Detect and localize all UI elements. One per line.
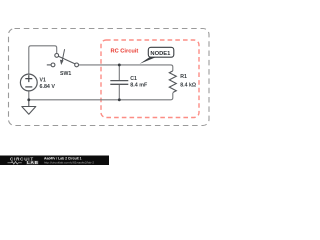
junction node at ground bbox=[27, 98, 30, 101]
voltage source V1 bbox=[20, 74, 37, 91]
wire bottom return bbox=[29, 93, 173, 100]
wire SW1 to top-right corner into resistor bbox=[79, 65, 173, 71]
svg-text:R1: R1 bbox=[180, 74, 187, 80]
footer attribution bar bbox=[0, 156, 109, 166]
wire V1 bottom stub bbox=[28, 91, 30, 100]
outer schematic boundary (gray dashed) bbox=[9, 29, 210, 126]
label RC Circuit bbox=[111, 49, 139, 55]
node NODE1 flag bbox=[140, 47, 174, 64]
footer CircuitLab logo bbox=[8, 157, 39, 166]
svg-text:RC Circuit: RC Circuit bbox=[111, 49, 139, 55]
svg-text:LAB: LAB bbox=[27, 160, 39, 165]
wire top-left from V1 to SW1 bbox=[29, 46, 57, 74]
svg-text:http://circuitlab.com/c/65zqvd: http://circuitlab.com/c/65zqvdw2/lab-2 bbox=[44, 160, 94, 164]
label V1 value bbox=[40, 77, 56, 90]
svg-text:SW1: SW1 bbox=[60, 71, 71, 77]
label R1 value bbox=[180, 74, 196, 89]
capacitor C1 bbox=[110, 81, 128, 85]
RC Circuit enclosure box (red dashed) bbox=[101, 40, 199, 118]
switch SW1 bbox=[47, 49, 79, 67]
junction node at C1 top bbox=[118, 63, 121, 66]
label C1 value bbox=[130, 76, 148, 89]
svg-text:C1: C1 bbox=[130, 76, 137, 82]
wire C1 top stub bbox=[118, 65, 120, 80]
wire C1 bottom stub bbox=[118, 85, 120, 100]
label SW1 bbox=[60, 71, 71, 77]
junction node at C1 bottom bbox=[118, 98, 121, 101]
svg-text:V1: V1 bbox=[40, 77, 46, 83]
svg-text:NODE1: NODE1 bbox=[150, 51, 171, 57]
svg-text:6.84 V: 6.84 V bbox=[40, 84, 56, 90]
svg-text:8.4 mF: 8.4 mF bbox=[130, 83, 148, 89]
svg-text:8.4 kΩ: 8.4 kΩ bbox=[180, 83, 196, 89]
resistor R1 bbox=[169, 71, 176, 93]
ground bbox=[22, 100, 36, 114]
footer title text bbox=[44, 157, 94, 165]
